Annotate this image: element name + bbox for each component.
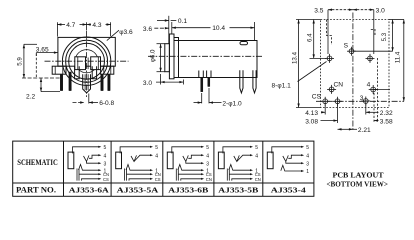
reference line S row (353, 50, 393, 52)
svg-text:CN: CN (255, 177, 261, 182)
svg-text:3.6: 3.6 (143, 26, 152, 33)
centerline barrel axis side view (148, 55, 263, 57)
dimension 2.21 (338, 128, 353, 130)
svg-text:5.9: 5.9 (17, 57, 24, 66)
sleeve symbol c1 (68, 152, 74, 169)
svg-text:3.0: 3.0 (143, 80, 152, 87)
ring circle 2 (66, 40, 108, 82)
dimension 3.08 (321, 120, 338, 122)
dimension 6-0.8 (73, 102, 85, 104)
right contact rectangle (91, 57, 101, 70)
svg-text:S: S (344, 43, 349, 50)
hole 3 (361, 97, 370, 106)
svg-text:0.1: 0.1 (178, 18, 187, 25)
internal dashed step top-left (327, 20, 332, 46)
schematic cell AJ353-4 (267, 145, 309, 175)
hole CN (327, 85, 336, 94)
center tip pin front view (83, 74, 91, 93)
svg-text:CS: CS (103, 177, 109, 182)
schematic cell AJ353-6A (68, 145, 109, 182)
svg-text:5: 5 (104, 145, 107, 151)
hole H7 (333, 97, 342, 106)
hole 4 (369, 85, 378, 94)
inner opening circle (75, 50, 98, 73)
svg-text:CS: CS (312, 93, 322, 100)
package outline dashed (321, 20, 390, 108)
jack body front view (58, 37, 115, 66)
svg-text:3.5: 3.5 (314, 8, 323, 15)
hole CS (321, 97, 330, 106)
wire pin3 c1 (87, 162, 100, 164)
center slot lines (85, 58, 87, 70)
svg-text:3.0: 3.0 (376, 8, 385, 15)
svg-text:6.4: 6.4 (306, 33, 313, 42)
svg-text:1: 1 (306, 169, 309, 175)
svg-text:<BOTTOM VIEW>: <BOTTOM VIEW> (326, 179, 388, 188)
svg-text:5: 5 (306, 145, 309, 151)
svg-text:4: 4 (306, 153, 309, 159)
reference line ear bottom (22, 77, 60, 79)
svg-text:AJ353-5A: AJ353-5A (117, 186, 159, 195)
svg-text:4: 4 (104, 153, 107, 159)
outer barrel circle (62, 37, 110, 85)
pin 5 front view (108, 74, 110, 90)
dimension 10.4 (171, 22, 173, 34)
flange side view (169, 34, 174, 79)
svg-text:8-φ1.1: 8-φ1.1 (272, 83, 292, 90)
schematic cell AJ353-5B (218, 145, 260, 182)
pin A side view (201, 78, 203, 92)
hole S (347, 47, 356, 56)
svg-text:5: 5 (206, 145, 209, 151)
needle pin C side view (240, 70, 243, 93)
svg-text:3: 3 (360, 95, 364, 102)
svg-text:13.4: 13.4 (291, 51, 298, 64)
svg-text:5: 5 (155, 145, 158, 151)
contact V pin4 c1 (84, 155, 90, 161)
internal dashed line right (377, 58, 379, 120)
reference line 4 hole (373, 89, 390, 91)
svg-text:3: 3 (104, 161, 107, 167)
dimension 6.4 (310, 57, 327, 59)
svg-text:4.3: 4.3 (92, 22, 101, 29)
centerline vertical pcb (352, 13, 354, 132)
svg-text:2.2: 2.2 (26, 94, 35, 101)
svg-text:CN: CN (334, 81, 344, 88)
svg-text:5: 5 (255, 145, 258, 151)
FRONT-VIEW-GROUP (17, 22, 133, 107)
SIDE-VIEW-GROUP (143, 16, 263, 108)
contact hook pin1 c1 (79, 165, 100, 171)
PCB-VIEW-GROUP (272, 8, 405, 135)
svg-text:φ6.0: φ6.0 (150, 49, 157, 62)
dimension 2.32 (366, 111, 379, 113)
svg-text:2.32: 2.32 (380, 110, 393, 117)
svg-text:AJ353-6B: AJ353-6B (168, 186, 208, 195)
svg-text:4: 4 (255, 153, 258, 159)
needle pin D side view (253, 70, 256, 93)
bottom extension lines (324, 105, 326, 115)
schematic cell AJ353-6B (167, 145, 212, 182)
svg-text:6-0.8: 6-0.8 (99, 100, 114, 107)
schematic cell AJ353-5A (116, 145, 161, 182)
dimension 4.13 (321, 111, 325, 113)
svg-text:4: 4 (155, 153, 158, 159)
TABLE-GROUP (13, 141, 388, 196)
table frame (13, 141, 314, 196)
svg-text:CS: CS (155, 177, 161, 182)
svg-text:4: 4 (367, 81, 371, 88)
svg-text:AJ353-5B: AJ353-5B (218, 186, 258, 195)
dimension 2-dia1.0 (201, 93, 203, 103)
switch CN CS c1 (76, 169, 78, 181)
internal dashed step top-right (371, 29, 375, 35)
svg-text:4: 4 (206, 153, 209, 159)
svg-text:11.4: 11.4 (395, 51, 402, 63)
svg-text:AJ353-6A: AJ353-6A (69, 186, 110, 195)
right ear (101, 66, 114, 74)
svg-text:3.58: 3.58 (380, 119, 393, 126)
svg-text:φ3.6: φ3.6 (119, 29, 133, 36)
svg-text:4.7: 4.7 (66, 22, 75, 29)
main body side view (174, 41, 257, 78)
dimension 11.4 (403, 20, 405, 102)
dimension dia 6.0 (157, 43, 166, 45)
bottom shroud tabs (75, 66, 80, 79)
hole H3 (366, 54, 375, 63)
hole H1 (325, 54, 334, 63)
svg-text:4.13: 4.13 (305, 110, 318, 117)
pin B side view (208, 78, 210, 87)
dimension 3.58 (374, 120, 379, 122)
ring circle 3 (69, 43, 105, 79)
svg-text:AJ353-4: AJ353-4 (271, 186, 306, 195)
centerline vertical front view (86, 31, 88, 98)
svg-text:10.4: 10.4 (212, 25, 225, 32)
dimension 4.7 / 4.3 top (56, 22, 58, 36)
slot on body top (240, 42, 248, 45)
dimension 0.1 (157, 20, 169, 22)
svg-text:SCHEMATIC: SCHEMATIC (17, 158, 58, 167)
svg-text:3: 3 (306, 161, 309, 167)
dimension 2.2 (40, 78, 42, 92)
bushing side view (165, 44, 170, 72)
svg-text:CN: CN (206, 177, 212, 182)
pin 4 front view (101, 74, 103, 90)
svg-text:PCB LAYOUT: PCB LAYOUT (333, 170, 384, 179)
centerline bottom hole row (316, 100, 404, 102)
centerline horizontal front view (45, 60, 129, 62)
dimension 13.4 (296, 19, 321, 21)
svg-text:5.3: 5.3 (381, 32, 388, 41)
svg-text:PART NO.: PART NO. (16, 186, 56, 195)
left ear (52, 66, 66, 74)
svg-text:2-φ1.0: 2-φ1.0 (222, 100, 242, 107)
svg-text:3.08: 3.08 (305, 119, 318, 126)
pin 2 front view (69, 72, 71, 91)
dimension 3.5 / 3.0 top (327, 10, 329, 54)
dimension 5.3 (389, 19, 404, 21)
top step side view (174, 38, 179, 41)
left contact rectangle (75, 57, 86, 70)
pin 1 front view (60, 74, 62, 90)
dimension 3.0 (160, 74, 162, 85)
wire pin5 c1 (73, 147, 100, 154)
svg-text:2.21: 2.21 (358, 127, 371, 134)
terminal plates inside body (198, 71, 200, 78)
dimension 5.9 (24, 43, 37, 45)
svg-text:3: 3 (206, 161, 209, 167)
